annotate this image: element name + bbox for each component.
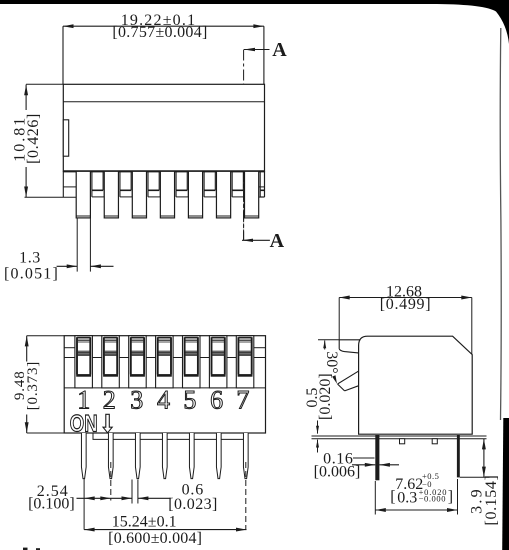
left side notch — [63, 120, 68, 156]
section arrow A bottom — [242, 230, 285, 252]
svg-text:[0.051]: [0.051] — [4, 266, 59, 283]
standoff boss right — [432, 439, 437, 444]
svg-text:[0.100]: [0.100] — [28, 496, 75, 513]
dim 0.16 arrows — [352, 458, 399, 467]
top view pin 5 — [188, 171, 202, 218]
dim 0.16 text — [314, 451, 361, 481]
dim 9.48 text — [12, 361, 41, 410]
svg-text:[0.373]: [0.373] — [25, 361, 41, 410]
30 deg leader arrows — [318, 340, 339, 384]
top view pin 7 — [245, 171, 259, 218]
svg-text:[0.006]: [0.006] — [314, 464, 361, 481]
dim 7.62 bracket text — [390, 487, 453, 506]
scan top black bar — [0, 0, 509, 44]
side pin left — [375, 435, 379, 480]
svg-text:[0.600±0.004]: [0.600±0.004] — [108, 530, 202, 547]
scan right bottom bar — [502, 418, 509, 550]
top view rear stub 7 — [260, 171, 264, 197]
section arrow A top — [244, 39, 287, 61]
front pin 1 — [81, 433, 86, 479]
svg-text:−0.000: −0.000 — [419, 494, 447, 504]
pin7 center dashed line — [245, 462, 247, 530]
front view body — [64, 336, 265, 433]
switch actuator 3 — [129, 336, 147, 388]
dim 2.54 text — [28, 483, 75, 512]
switch numbers 1-7 — [77, 386, 249, 415]
front pin 2 — [108, 433, 113, 479]
dim 9.48 line — [25, 336, 64, 433]
svg-text:4: 4 — [157, 386, 170, 415]
switch actuator 7 — [236, 336, 254, 388]
dim 3.9 text — [468, 475, 500, 526]
switch actuator 6 — [209, 336, 227, 388]
lever 30-degree piece — [338, 371, 359, 391]
svg-text:6: 6 — [210, 386, 223, 415]
dim 3.9 line — [460, 439, 490, 478]
top view pin 1 — [76, 171, 90, 218]
svg-text:[0.499]: [0.499] — [380, 296, 432, 313]
dim 1.3 arrows — [57, 264, 114, 268]
dim 0.6 arrows — [111, 496, 171, 500]
front pin 6 — [216, 433, 221, 479]
top view pin 3 — [132, 171, 146, 218]
top view pin 2 — [104, 171, 118, 218]
dim 7.62 extension lines — [375, 479, 457, 515]
dim 15.24 text — [108, 514, 202, 548]
dim 15.24 line — [84, 528, 246, 532]
pin3 edge extension lines — [132, 480, 138, 504]
dim 0.5 arrows — [316, 421, 319, 453]
pin1 extension line — [83, 479, 85, 530]
dim 1.3 text — [4, 249, 59, 282]
side pin right — [457, 435, 460, 477]
svg-text:[: [ — [390, 489, 395, 506]
svg-text:1.3: 1.3 — [19, 249, 41, 266]
scan bottom-left specks — [23, 548, 40, 550]
dim 10.81 line — [24, 84, 77, 197]
section line over pin7 — [243, 171, 245, 240]
switch actuator 5 — [183, 336, 201, 388]
svg-text:7: 7 — [236, 386, 249, 415]
dim 1.3 extension lines — [77, 218, 90, 271]
front pin 5 — [189, 433, 194, 479]
side lever — [339, 340, 360, 353]
dim 2.54 arrows — [77, 496, 111, 500]
svg-text:2: 2 — [103, 386, 116, 415]
front pin 4 — [162, 433, 167, 479]
dim 12.68 line — [339, 296, 472, 355]
svg-text:[0.020]: [0.020] — [317, 373, 334, 420]
dim 7.62 text — [395, 471, 439, 493]
dim 12.68 text — [380, 283, 432, 313]
bottom flange left piece — [63, 171, 76, 197]
top view rear stub 1 — [92, 171, 104, 197]
side view body outline — [359, 336, 473, 434]
top view rear stub 3 — [148, 171, 160, 197]
bottom flange right piece — [258, 171, 264, 197]
svg-text:5: 5 — [183, 386, 196, 415]
top view body — [63, 84, 264, 171]
svg-text:A: A — [270, 230, 285, 252]
top view rear stub 5 — [204, 171, 216, 197]
svg-text:0.3: 0.3 — [397, 490, 417, 507]
dim 19.22 line — [63, 24, 264, 84]
section line A-A — [243, 50, 245, 241]
dim 19.22 text — [112, 12, 207, 41]
switch actuator 1 — [75, 336, 93, 388]
switch actuator 4 — [156, 336, 174, 388]
svg-text:A: A — [272, 39, 287, 61]
top view rear stub 4 — [176, 171, 188, 197]
front body left block divider — [64, 347, 75, 349]
standoff boss left — [400, 439, 405, 444]
front pin 7 — [243, 433, 248, 479]
dim 0.6 text — [168, 481, 217, 512]
dim 7.62 line — [375, 508, 457, 512]
svg-text:3: 3 — [130, 386, 143, 415]
svg-text:[0.426]: [0.426] — [25, 113, 42, 164]
svg-text:[0.154]: [0.154] — [483, 475, 500, 526]
top view pin 4 — [160, 171, 174, 218]
top view rear stub 6 — [232, 171, 244, 197]
pin2 center dashed line — [110, 462, 112, 501]
scan right edge line — [499, 28, 502, 420]
dim 10.81 text — [11, 113, 42, 164]
svg-text:30°: 30° — [323, 351, 340, 373]
top view rear stub 2 — [120, 171, 132, 197]
dim 0.5 text — [304, 373, 334, 420]
front body right block divider — [254, 347, 266, 349]
seating plane lines — [312, 436, 487, 439]
svg-text:15.24±0.1: 15.24±0.1 — [112, 514, 177, 531]
front pin 3 — [135, 433, 140, 479]
svg-text:]: ] — [448, 489, 453, 506]
switch actuator 2 — [102, 336, 120, 388]
svg-text:[0.023]: [0.023] — [168, 496, 217, 513]
ON down arrow — [103, 414, 112, 433]
top view pin 6 — [216, 171, 230, 218]
svg-text:[0.757±0.004]: [0.757±0.004] — [112, 24, 207, 41]
front standoff bar — [93, 433, 247, 439]
